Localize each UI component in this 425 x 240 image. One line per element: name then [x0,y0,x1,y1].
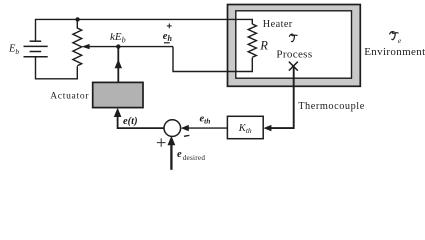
block Kth [227,116,263,138]
label + (heater voltage) [167,24,172,29]
wire: battery top to heater top [36,19,253,41]
svg-text:e: e [177,149,182,160]
heater resistor R [248,24,256,57]
svg-text:Heater: Heater [263,19,293,30]
svg-text:eth: eth [200,114,211,126]
wire: actuator to wiper [117,47,119,83]
label Te (environment) [390,32,398,40]
label script T (process) [289,34,297,42]
arrowhead into summer [181,125,189,131]
summing junction [164,120,181,137]
svg-text:Environment: Environment [364,46,425,58]
actuator box [93,82,143,107]
wire: e(t) from summer to actuator [118,116,164,128]
arrowhead up to wiper [115,59,122,68]
svg-text:Thermocouple: Thermocouple [298,101,365,112]
wiper arrowhead [82,44,90,49]
thermocouple X mark [289,62,298,71]
label + (summer) [157,138,166,147]
wire: wiper line [87,46,173,48]
wire: eth from Kth to summer [188,127,228,129]
svg-text:e: e [398,36,402,45]
arrowhead into actuator [114,108,122,117]
wire: wiper down to heater loop [173,47,252,72]
label - (summer) [184,134,189,137]
oven outer wall [228,5,361,87]
potentiometer body [73,19,82,65]
svg-text:desired: desired [183,154,206,162]
svg-text:e(t): e(t) [123,116,138,127]
svg-text:kEb: kEb [110,31,126,45]
node: wiper junction dot [116,44,120,48]
oven inner wall [236,11,352,78]
battery Eb plates [24,41,48,57]
wire: thermocouple lead [268,66,294,128]
arrowhead into summer [168,136,176,145]
wire: e desired input [170,142,172,170]
svg-text:Eb: Eb [8,44,19,56]
wire: battery bottom to potentiometer bottom [36,57,78,79]
svg-text:Actuator: Actuator [50,91,89,101]
label - (heater voltage) [164,42,170,44]
svg-text:eh: eh [163,31,173,43]
svg-text:R: R [259,38,268,52]
thermocouple arrowhead into Kth [263,125,271,131]
svg-text:Process: Process [276,48,312,60]
node: top junction dot [75,17,79,21]
